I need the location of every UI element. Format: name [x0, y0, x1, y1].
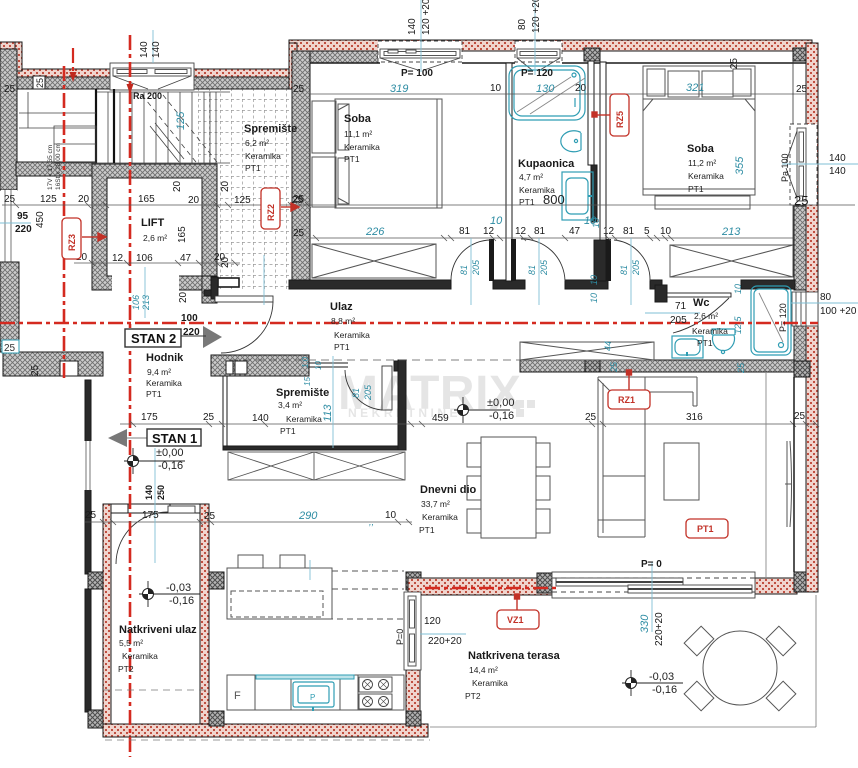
top wall inner edge lines [289, 62, 812, 64]
Stan2 entry arrow [203, 326, 222, 348]
svg-text:25: 25 [4, 194, 16, 205]
step connector wall red [289, 43, 297, 89]
svg-text:5,5 m²: 5,5 m² [119, 638, 143, 648]
red tag RZ1 [608, 390, 650, 409]
west wall band of Hodnik [3, 352, 103, 376]
Natkriveni ulaz top wall band [111, 504, 200, 513]
svg-text:316: 316 [686, 412, 703, 423]
door1 Soba1 [451, 239, 494, 281]
landing lines left of stairs [19, 92, 96, 128]
svg-text:PT1: PT1 [245, 163, 261, 173]
svg-text:81: 81 [527, 265, 537, 275]
svg-text:LIFT: LIFT [141, 217, 164, 229]
wall pier top right corner [793, 48, 809, 61]
svg-text:PT2: PT2 [118, 664, 134, 674]
svg-text:Spremište: Spremište [244, 123, 297, 135]
svg-text:12: 12 [483, 226, 495, 237]
window Wc [792, 292, 818, 326]
level marker Stan1 [124, 448, 185, 474]
Spremiste2 thin top wall [309, 363, 348, 367]
Kupaonica right wall [588, 61, 594, 165]
svg-text:120 +20: 120 +20 [421, 0, 432, 35]
window Kupaonica P=120 [515, 41, 562, 70]
wardrobe 1 X-box [312, 244, 436, 278]
kitchen east red wall below window [406, 670, 420, 711]
svg-text:Ulaz: Ulaz [330, 301, 353, 313]
wall pier top middle [584, 48, 600, 61]
svg-text:25: 25 [729, 58, 740, 70]
terrace sliding door P=0 [552, 572, 755, 598]
svg-text:20: 20 [575, 83, 587, 94]
west thin wall window [83, 441, 93, 490]
svg-text:81: 81 [623, 226, 635, 237]
svg-text:-0,03: -0,03 [166, 582, 191, 594]
svg-text:321: 321 [686, 82, 704, 94]
kitchen east pier bottom [406, 711, 421, 726]
pier left of terrace door [537, 573, 552, 593]
svg-text:33,7 m²: 33,7 m² [421, 499, 450, 509]
window labels [133, 68, 662, 570]
bed 1 Soba left [312, 99, 442, 208]
svg-text:6,2 m²: 6,2 m² [245, 138, 269, 148]
svg-text:Keramika: Keramika [286, 414, 322, 424]
Stan1 entry arrow [108, 429, 127, 447]
svg-text:106: 106 [131, 295, 141, 310]
Hodnik boundary dashes [103, 689, 209, 691]
dim line row y424 [120, 423, 816, 425]
svg-text:25: 25 [796, 84, 808, 95]
svg-text:12: 12 [515, 226, 527, 237]
long dashed corridor line [230, 359, 520, 361]
svg-text:250: 250 [156, 485, 166, 500]
curtain window living [785, 441, 792, 527]
top-left corner red stub [0, 42, 22, 49]
svg-text:47: 47 [180, 253, 192, 264]
svg-text:81: 81 [351, 388, 361, 398]
svg-text:PT1: PT1 [688, 184, 704, 194]
svg-text:205: 205 [670, 315, 687, 326]
svg-text:Natkrivena terasa: Natkrivena terasa [468, 650, 561, 662]
svg-text:±0,00: ±0,00 [156, 447, 183, 459]
svg-text:125: 125 [234, 195, 251, 206]
svg-text:25: 25 [85, 510, 97, 521]
axis horizontal main [0, 322, 818, 325]
Spremiste2 bottom wall [223, 446, 405, 450]
Hodnik north wall band [211, 355, 309, 376]
dim line row y263 lift [74, 262, 240, 264]
Natkriveni ulaz left red wall [103, 504, 111, 734]
svg-text:140: 140 [829, 166, 846, 177]
svg-text:213: 213 [141, 295, 151, 311]
door2 Kupaonica [511, 239, 565, 281]
exterior top wall left part red right segment [194, 69, 289, 77]
red tag VZ1 [497, 610, 539, 629]
level marker terrace [622, 670, 683, 696]
west thin wall lower [85, 589, 91, 712]
svg-text:20: 20 [78, 194, 90, 205]
svg-text:205: 205 [471, 259, 481, 276]
door Stan1 entry leaf and arc [116, 506, 195, 564]
red leader lines and markers [82, 112, 632, 610]
svg-text:175: 175 [141, 412, 158, 423]
svg-text:±0,00: ±0,00 [487, 397, 514, 409]
svg-text:P: P [310, 693, 315, 702]
svg-text:,,: ,, [369, 517, 374, 527]
Kupaonica left wall [506, 63, 512, 281]
dim line row y205 left [2, 204, 855, 206]
svg-text:80: 80 [517, 18, 528, 30]
stairwell south wall [16, 162, 96, 176]
svg-text:1,0: 1,0 [301, 356, 310, 368]
svg-text:RZ3: RZ3 [67, 234, 77, 251]
west pier 1 [88, 572, 103, 589]
svg-text:120 +20: 120 +20 [531, 0, 542, 33]
svg-text:STAN 1: STAN 1 [152, 431, 197, 446]
interior wall Spremiste/Soba [292, 51, 310, 280]
svg-text:80: 80 [820, 292, 832, 303]
wall stub right of LIFT [218, 278, 239, 287]
level marker Natkriveni ulaz [139, 581, 200, 607]
entry wall piece left of Stan2 door [211, 277, 218, 299]
stairs treads [54, 89, 230, 163]
svg-text:17V x 17,65 cm: 17V x 17,65 cm [47, 145, 54, 190]
svg-text:12,5: 12,5 [733, 315, 743, 334]
svg-text:220: 220 [183, 327, 200, 338]
toilet Kupaonica [561, 131, 581, 152]
svg-text:165: 165 [177, 226, 188, 243]
svg-text:16St x 28,00 cm: 16St x 28,00 cm [55, 143, 62, 190]
svg-text:Ra 200: Ra 200 [133, 91, 162, 101]
shower Wc [751, 286, 791, 355]
svg-text:20: 20 [178, 291, 189, 303]
Spremiste2 top right corner [394, 361, 406, 371]
west band white slot [60, 361, 78, 376]
door3 Soba2 [606, 239, 650, 281]
svg-text:4,7 m²: 4,7 m² [519, 172, 543, 182]
kitchen stove burners [359, 677, 392, 709]
Spremiste2 left wall [223, 376, 227, 447]
dim line y94 upper rooms [310, 93, 812, 95]
svg-text:459: 459 [432, 413, 449, 424]
svg-text:P= 100: P= 100 [401, 68, 433, 79]
svg-text:106: 106 [136, 253, 153, 264]
svg-text:2,6 m²: 2,6 m² [694, 311, 718, 321]
svg-text:165: 165 [138, 194, 155, 205]
svg-text:120: 120 [424, 616, 441, 627]
svg-text:205: 205 [631, 259, 641, 276]
svg-text:Keramika: Keramika [344, 142, 380, 152]
svg-text:Wc: Wc [693, 297, 710, 309]
svg-text:81: 81 [459, 226, 471, 237]
living window bay line [765, 373, 767, 578]
exterior top wall left part red [16, 69, 110, 77]
svg-text:-0,16: -0,16 [169, 595, 194, 607]
exterior top wall right part (red insulation) [289, 40, 812, 51]
dim line row y522 [85, 521, 412, 523]
left wall window slot [1, 190, 17, 262]
svg-text:Spremište: Spremište [276, 387, 329, 399]
svg-text:450: 450 [35, 211, 46, 228]
svg-text:10: 10 [314, 361, 323, 370]
svg-text:Keramika: Keramika [146, 378, 182, 388]
hall closet wall band [520, 360, 794, 372]
svg-text:10: 10 [490, 83, 502, 94]
svg-text:5: 5 [644, 226, 650, 237]
svg-text:10: 10 [660, 226, 672, 237]
window Ra 200 stairwell [110, 63, 194, 90]
svg-text:9,4 m²: 9,4 m² [147, 367, 171, 377]
svg-text:140: 140 [407, 18, 418, 35]
svg-text:RZ1: RZ1 [618, 395, 635, 405]
door Wc [673, 298, 729, 333]
svg-text:44: 44 [603, 341, 613, 351]
Natkriveni ulaz right red wall [200, 504, 209, 734]
svg-text:25: 25 [609, 361, 619, 373]
svg-text:10: 10 [589, 275, 599, 285]
door Spremiste2 [345, 366, 392, 410]
svg-text:Natkriveni ulaz: Natkriveni ulaz [119, 624, 197, 636]
LIFT shaft walls [92, 164, 218, 303]
room labels [118, 113, 728, 701]
svg-text:Hodnik: Hodnik [146, 352, 184, 364]
svg-text:81: 81 [459, 265, 469, 275]
south red wall right of door [755, 578, 797, 594]
red tag RZ2 [261, 188, 280, 229]
svg-text:140: 140 [252, 413, 269, 424]
hall closet X-box [520, 342, 654, 360]
east wall masonry Wc section [794, 206, 806, 290]
terrace round table [703, 631, 777, 705]
svg-text:PT1: PT1 [334, 342, 350, 352]
svg-text:11,2 m²: 11,2 m² [688, 158, 716, 168]
svg-text:25: 25 [293, 84, 305, 95]
left exterior wall lower [0, 262, 19, 352]
sink Wc [672, 336, 703, 358]
svg-text:140: 140 [151, 41, 162, 58]
svg-text:14,4 m²: 14,4 m² [469, 665, 498, 675]
svg-text:15: 15 [303, 377, 312, 386]
svg-text:290: 290 [298, 510, 318, 522]
sanitary fixtures teal [293, 66, 791, 711]
svg-text:PT1: PT1 [280, 426, 296, 436]
svg-text:220+20: 220+20 [654, 612, 665, 646]
svg-text:Kupaonica: Kupaonica [518, 158, 575, 170]
svg-text:10: 10 [733, 284, 743, 294]
svg-text:Keramika: Keramika [334, 330, 370, 340]
svg-text:25: 25 [293, 228, 305, 239]
svg-text:25: 25 [4, 84, 16, 95]
svg-text:10: 10 [490, 215, 503, 227]
svg-text:140: 140 [829, 153, 846, 164]
svg-text:226: 226 [365, 226, 385, 238]
kitchen island [227, 555, 404, 619]
svg-text:20: 20 [220, 180, 231, 192]
coffee table / rug [664, 443, 699, 500]
dining table [481, 437, 536, 538]
svg-text:25: 25 [204, 511, 216, 522]
window Soba1 P=100 [378, 41, 462, 70]
svg-text:PT2: PT2 [465, 691, 481, 701]
Wc thin top wall [667, 293, 731, 297]
sofa L-shape [598, 377, 697, 537]
svg-text:25: 25 [794, 411, 806, 422]
kitchen east pier top [406, 572, 421, 590]
svg-text:355: 355 [734, 156, 746, 175]
kitchen upper cabinets X band [228, 452, 405, 480]
svg-text:PT1: PT1 [519, 197, 535, 207]
dining chairs right [536, 443, 550, 467]
exterior top wall left part masonry [16, 77, 290, 89]
corridor top wall segments [289, 280, 451, 289]
svg-text:330: 330 [639, 614, 651, 633]
svg-text:-0,16: -0,16 [652, 684, 677, 696]
Soba2 left wall [600, 62, 606, 240]
svg-text:PT1: PT1 [146, 389, 162, 399]
svg-text:Keramika: Keramika [688, 171, 724, 181]
svg-text:100: 100 [181, 313, 198, 324]
toilet Wc [712, 329, 735, 354]
terrace chairs [684, 626, 714, 656]
door Stan2 entry leaf [215, 296, 273, 353]
tiny stair text [47, 143, 62, 190]
svg-text:STAN 2: STAN 2 [131, 331, 176, 346]
svg-text:20: 20 [220, 256, 231, 268]
svg-text:8,8 m²: 8,8 m² [331, 316, 355, 326]
svg-text:25: 25 [30, 364, 41, 376]
svg-text:95: 95 [17, 211, 29, 222]
svg-text:11,1 m²: 11,1 m² [344, 129, 372, 139]
svg-text:12: 12 [112, 253, 124, 264]
pier right of terrace door [794, 572, 810, 592]
svg-text:Keramika: Keramika [245, 151, 281, 161]
svg-text:PT1: PT1 [697, 524, 714, 534]
svg-text:Soba: Soba [344, 113, 372, 125]
shared wall piece Kupaonica/Soba2 [594, 240, 606, 281]
svg-text:319: 319 [390, 83, 408, 95]
svg-text:100 +20: 100 +20 [820, 306, 857, 317]
svg-text:205: 205 [363, 384, 373, 401]
svg-text:10: 10 [589, 293, 599, 303]
svg-text:Keramika: Keramika [472, 678, 508, 688]
watermark MATRIX [338, 367, 535, 420]
svg-text:-0,16: -0,16 [158, 460, 183, 472]
red tag PT1 [686, 519, 728, 538]
terrace boundary [430, 595, 816, 727]
exterior top wall right part masonry under [297, 51, 378, 63]
svg-text:205: 205 [539, 259, 549, 276]
step connector masonry [297, 51, 310, 89]
svg-text:Keramika: Keramika [692, 326, 728, 336]
svg-text:25: 25 [35, 78, 45, 88]
svg-text:Keramika: Keramika [422, 512, 458, 522]
west thin wall upper [85, 380, 91, 574]
svg-text:25: 25 [293, 194, 305, 205]
STAN 1 box [147, 429, 201, 446]
svg-text:PT1: PT1 [419, 525, 435, 535]
svg-text:P= 0: P= 0 [641, 559, 662, 570]
red tag RZ5 [610, 94, 629, 136]
dim line row y238 corridor [310, 237, 795, 239]
level texts [156, 397, 677, 696]
svg-text:-0,16: -0,16 [489, 410, 514, 422]
axis vertical left [63, 66, 66, 378]
bed 2 Soba right [643, 66, 755, 209]
left exterior wall upper [0, 49, 17, 190]
svg-text:P= 120: P= 120 [521, 68, 553, 79]
svg-text:25: 25 [794, 193, 808, 208]
svg-text:47: 47 [569, 226, 581, 237]
Dnevni east wall inner face [793, 377, 795, 572]
red tag RZ3 [62, 218, 81, 259]
svg-text:800: 800 [543, 192, 565, 207]
svg-text:130: 130 [536, 83, 555, 95]
svg-text:20: 20 [188, 195, 200, 206]
svg-text:3,4 m²: 3,4 m² [278, 400, 302, 410]
svg-text:PT1: PT1 [344, 154, 360, 164]
axis vertical middle [129, 35, 132, 757]
svg-text:125: 125 [40, 194, 57, 205]
axis horizontal terrace [425, 587, 556, 590]
wardrobe 2 X-box [670, 245, 793, 277]
west pier 2 [88, 710, 103, 728]
svg-text:RZ2: RZ2 [266, 204, 276, 221]
svg-text:25: 25 [4, 343, 16, 354]
Spremiste2 right wall [398, 360, 406, 450]
svg-text:F: F [234, 690, 241, 702]
level marker Stan2 [454, 397, 510, 423]
svg-text:140: 140 [139, 41, 150, 58]
svg-text:10: 10 [591, 218, 601, 228]
svg-text:213: 213 [721, 226, 741, 238]
svg-text:P= 120: P= 120 [778, 303, 788, 332]
svg-text:VZ1: VZ1 [507, 615, 524, 625]
STAN 2 box [125, 329, 181, 347]
svg-text:Keramika: Keramika [122, 651, 158, 661]
svg-text:Soba: Soba [687, 143, 715, 155]
bottom exterior red wall [103, 724, 428, 737]
bathtub Kupaonica [509, 66, 585, 120]
svg-text:12: 12 [603, 226, 615, 237]
window Soba2 Pa 100 [786, 124, 817, 205]
svg-text:71: 71 [675, 301, 687, 312]
kitchen sink [293, 682, 334, 711]
teal 25 box [2, 340, 19, 354]
svg-text:81: 81 [534, 226, 546, 237]
window/door kitchen P=0 [404, 592, 421, 670]
floor tile grid Spremiste 1 upper [197, 89, 290, 164]
kitchen counter [227, 675, 404, 710]
sink Kupaonica [562, 172, 593, 220]
east exterior red wall [806, 43, 818, 592]
svg-text:2,6 m²: 2,6 m² [143, 233, 167, 243]
svg-text:20: 20 [172, 180, 183, 192]
svg-text:25: 25 [736, 362, 746, 374]
svg-text:Pa 100: Pa 100 [780, 153, 790, 182]
svg-text:220+20: 220+20 [428, 636, 462, 647]
svg-text:25: 25 [585, 412, 597, 423]
svg-text:113: 113 [322, 404, 334, 422]
svg-text:-0,03: -0,03 [649, 671, 674, 683]
Dnevni south red wall left of door [408, 578, 552, 595]
svg-text:PT1: PT1 [697, 338, 713, 348]
svg-text:10: 10 [385, 510, 397, 521]
svg-text:220: 220 [15, 224, 32, 235]
svg-text:140: 140 [144, 485, 154, 500]
teal dimension numbers [131, 82, 746, 633]
svg-text:Dnevni dio: Dnevni dio [420, 484, 477, 496]
svg-text:25: 25 [203, 412, 215, 423]
dining chairs left [467, 443, 481, 467]
